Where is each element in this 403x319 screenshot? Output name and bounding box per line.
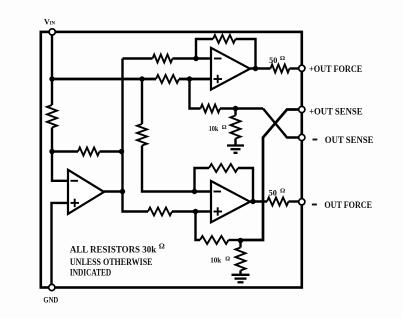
op-amp U2 (left) bbox=[68, 170, 104, 214]
wire resistor to + input bbox=[179, 78, 211, 81]
wire 10k2 top lead bbox=[239, 240, 241, 248]
wire to top op-amp - input bbox=[123, 57, 153, 59]
terminal +OUT SENSE bbox=[299, 106, 305, 112]
wire resistor to 10k node bbox=[229, 239, 241, 241]
wire top op-amp output bbox=[250, 67, 271, 69]
wire node at (142,79) down bbox=[141, 79, 143, 124]
terminal Vin bbox=[49, 29, 55, 35]
resistor R1 30k (Vin divider top) bbox=[47, 105, 57, 128]
wire 10k1 top lead bbox=[234, 109, 236, 116]
svg-text:ALL RESISTORS 30k: ALL RESISTORS 30k bbox=[70, 244, 156, 254]
label -OUT SENSE bbox=[313, 139, 318, 141]
resistor R9 30k bbox=[201, 105, 221, 113]
svg-text:Ω: Ω bbox=[222, 125, 227, 131]
svg-text:50: 50 bbox=[269, 56, 277, 65]
label -OUT FORCE bbox=[312, 204, 317, 206]
wire left op-amp output bbox=[104, 190, 123, 192]
svg-text:10k: 10k bbox=[210, 255, 222, 264]
wire feedback down to output bbox=[238, 168, 253, 202]
resistor R6 30k (left op-amp feedback) bbox=[78, 148, 100, 156]
wire crossover diagonal to +OUT SENSE bbox=[241, 110, 300, 241]
svg-text:Ω: Ω bbox=[280, 55, 285, 62]
wire feedback to output rail bbox=[100, 150, 123, 152]
op-amp U3 (bottom) bbox=[211, 181, 250, 222]
svg-text:50: 50 bbox=[269, 188, 277, 197]
svg-text:OUT FORCE: OUT FORCE bbox=[324, 200, 372, 210]
svg-text:+OUT SENSE: +OUT SENSE bbox=[309, 107, 363, 117]
wire to +OUT FORCE terminal bbox=[290, 67, 300, 69]
svg-text:UNLESS OTHERWISE: UNLESS OTHERWISE bbox=[70, 257, 153, 267]
wire bottom op-amp output bbox=[250, 200, 267, 202]
resistor R12 50 ohm bbox=[267, 198, 289, 206]
wire resistor to - input bbox=[173, 57, 212, 59]
resistor R5 30k bbox=[153, 55, 173, 63]
svg-text:OUT SENSE: OUT SENSE bbox=[325, 135, 374, 145]
svg-text:10k: 10k bbox=[209, 124, 219, 133]
outer box bbox=[41, 32, 302, 288]
wire left op-amp feedback left bbox=[52, 150, 78, 152]
wire Vin rail down from Vin terminal bbox=[51, 35, 53, 106]
wire to -OUT FORCE terminal bbox=[289, 200, 300, 202]
wire left op-amp + input to GND rail bbox=[52, 203, 69, 288]
wire Vin node to top op-amp + input bbox=[52, 78, 156, 81]
op-amp U1 (top) bbox=[211, 48, 250, 90]
wire 10k2 bottom lead bbox=[239, 271, 241, 275]
ground GND1 bbox=[227, 146, 244, 153]
svg-text:INDICATED: INDICATED bbox=[70, 268, 112, 278]
resistor R3 30k (vertical) bbox=[137, 124, 147, 146]
svg-text:+OUT FORCE: +OUT FORCE bbox=[309, 64, 362, 74]
resistor R4 30k bbox=[148, 208, 172, 216]
ground GND2 bbox=[232, 275, 250, 283]
wire bottom + node down bbox=[196, 212, 201, 241]
resistor R7 30k (top op-amp feedback) bbox=[213, 35, 236, 43]
svg-text:GND: GND bbox=[43, 295, 58, 304]
wire down to bottom op-amp - input bbox=[142, 146, 211, 192]
svg-text:Ω: Ω bbox=[159, 242, 165, 251]
resistor R13 30k bbox=[200, 236, 229, 244]
wire divider rail to inverting stub bbox=[52, 128, 68, 181]
terminal +OUT FORCE bbox=[299, 65, 305, 71]
terminal -OUT SENSE bbox=[299, 134, 305, 140]
wire to crossover bbox=[220, 107, 263, 109]
resistor R14 10k (vertical) bbox=[236, 248, 246, 271]
wire 10k1 bottom lead bbox=[234, 139, 236, 146]
wire to bottom op-amp + input bbox=[172, 210, 211, 212]
resistor R8 50 ohm bbox=[271, 65, 290, 73]
resistor R2 30k bbox=[156, 75, 179, 83]
terminal -OUT FORCE bbox=[299, 199, 305, 205]
wire left op-amp output rail bbox=[123, 59, 149, 212]
resistor R10 10k (vertical) bbox=[231, 116, 241, 139]
resistor R11 30k (bottom op-amp feedback) bbox=[209, 164, 238, 172]
wire feedback down to output bbox=[236, 39, 256, 69]
wire crossover diagonal to -OUT SENSE bbox=[263, 109, 299, 138]
wire + input node down bbox=[190, 79, 201, 109]
wire top feedback up bbox=[196, 39, 213, 59]
svg-text:Ω: Ω bbox=[225, 257, 230, 263]
svg-text:Ω: Ω bbox=[280, 187, 285, 194]
terminal GND bbox=[49, 284, 55, 290]
wire bottom feedback up bbox=[195, 168, 210, 192]
